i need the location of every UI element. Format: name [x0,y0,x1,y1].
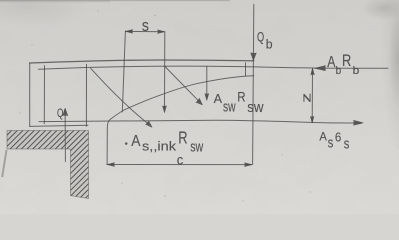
svg-text:s: s [344,136,350,153]
svg-text:s,,ink: s,,ink [142,139,177,154]
svg-text:6: 6 [335,129,341,144]
svg-text:R: R [342,51,351,70]
Qb load arrow / section line [253,4,254,164]
svg-text:A: A [131,133,140,150]
svg-text:b: b [336,65,342,77]
s right extension line with arrow [164,32,166,109]
top edge dark line [0,0,230,1]
svg-text:A: A [214,92,223,106]
vertical Asw arrow [206,66,208,96]
svg-text:Q: Q [257,29,264,44]
beam second top line / A_b R_b line [39,66,389,69]
inclined Asw arrow [165,66,200,101]
right edge shadow [375,0,399,150]
svg-text:s: s [328,135,334,152]
label . As,,ink Rsw (bottom) [125,142,127,144]
svg-text:c: c [177,152,184,167]
Ab Rb arrow head [315,66,326,71]
s left extension line [122,31,125,112]
svg-text:b: b [353,65,360,77]
compression strut curve down to c line [107,76,254,165]
svg-text:sw: sw [247,99,263,116]
beam bottom inner line / A_s line [39,120,361,123]
beam inner left vertical [43,66,45,124]
svg-text:z: z [299,93,314,103]
z dimension line [311,69,313,123]
svg-text:R: R [178,128,187,148]
wall support hatched corner [2,131,88,199]
top-right corner smudge [362,0,399,20]
svg-text:s: s [142,17,149,35]
svg-text:Q: Q [57,106,63,120]
paper specks [19,10,310,201]
left edge pencil streak [2,150,6,177]
crack diagonal arrow [91,68,149,124]
As arrow head [354,120,364,125]
beam bottom outer line [30,125,88,126]
beam left outer edge [29,63,31,126]
svg-text:sw: sw [223,98,236,115]
support face vertical [85,64,87,126]
svg-text:sw: sw [190,139,203,155]
s dimension line [125,30,164,32]
beam top outer line [30,60,254,63]
top-left corner mottle [0,0,90,26]
short vertical at compression zone end [245,63,247,76]
svg-text:A: A [319,130,327,144]
Q reaction arrow [64,109,66,162]
svg-text:R: R [237,89,246,104]
svg-text:b: b [266,37,273,51]
c dimension line [107,164,252,166]
